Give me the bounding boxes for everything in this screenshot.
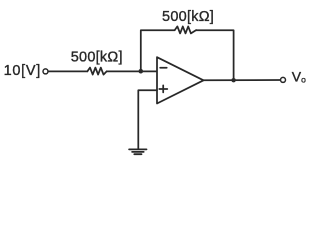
- resistor R1 (input 500[kΩ]): [87, 68, 106, 75]
- svg-text:10[V]: 10[V]: [4, 63, 41, 79]
- svg-text:500[kΩ]: 500[kΩ]: [162, 9, 214, 25]
- wire: input terminal to R1: [48, 70, 87, 72]
- wire: feedback left vertical + top run to R2: [141, 30, 175, 71]
- output terminal: [281, 77, 286, 82]
- op-amp inverting input marker (−): [160, 67, 167, 69]
- ground: [129, 149, 146, 154]
- svg-text:500[kΩ]: 500[kΩ]: [71, 50, 123, 66]
- op-amp U1: [157, 57, 204, 103]
- resistor R2 (feedback 500[kΩ]): [175, 26, 196, 33]
- wire: R2 to output node (top right + right vertical): [196, 30, 234, 80]
- wire: non-inverting input to ground: [138, 90, 157, 149]
- node A: junction of R1, feedback and op-amp input: [139, 69, 144, 74]
- wire: op-amp output to terminal: [204, 79, 281, 81]
- node B: output junction with feedback: [231, 78, 235, 82]
- input terminal: [43, 69, 48, 74]
- svg-text:Vo: Vo: [292, 69, 306, 85]
- wire: R1 to op-amp inverting input: [107, 70, 157, 72]
- op-amp non-inverting input marker (+): [159, 85, 167, 92]
